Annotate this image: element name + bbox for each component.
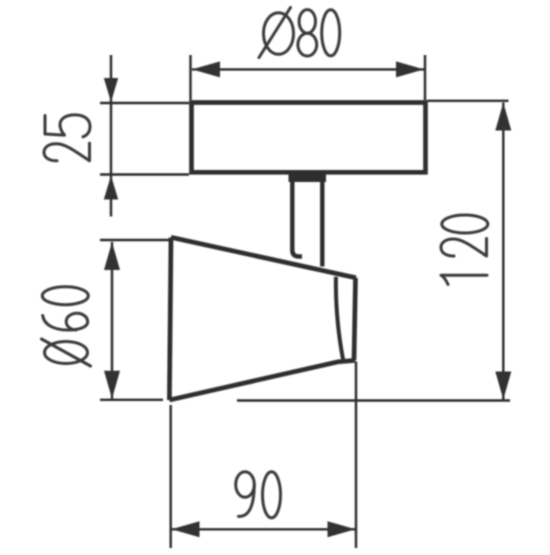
lamp cone rim inner line — [336, 277, 343, 360]
label 25 glyph 2 — [44, 143, 90, 161]
dim Ø80 dimension line — [192, 68, 424, 70]
dim 25 bottom arrowhead — [104, 176, 118, 200]
dim 90 left extension line — [169, 405, 171, 548]
dim 90 left arrowhead — [172, 521, 200, 537]
lamp neck collar — [289, 172, 327, 182]
label 120 glyph 0 — [442, 215, 488, 233]
dim 120 top arrowhead — [495, 103, 511, 131]
label 90 glyph 0 — [263, 472, 281, 518]
dim 120 dimension line — [502, 103, 504, 400]
dim 25 bottom extension line — [100, 173, 189, 175]
label Ø80 glyph 0 — [322, 10, 340, 56]
lamp cone rim outer line — [354, 278, 356, 361]
dim Ø80 right extension line — [424, 55, 426, 100]
label Ø80 glyph Ø — [259, 8, 294, 58]
dim 120 bottom extension line — [237, 399, 510, 401]
dim Ø60 top extension line — [100, 239, 170, 241]
dim 25 top extension line — [100, 102, 189, 104]
lamp mounting plate rectangle — [192, 103, 426, 173]
lamp cone left edge — [169, 238, 171, 401]
dim 90 dimension line — [172, 528, 356, 530]
label 90 glyph 9 — [236, 472, 255, 517]
label 120 glyph 2 — [441, 239, 487, 257]
dim 90 right extension line — [355, 362, 357, 549]
dim Ø60 bottom extension line — [100, 399, 163, 401]
lamp neck right wall — [320, 180, 324, 267]
dim Ø60 dimension line — [111, 242, 113, 399]
dim 25 dimension line — [110, 55, 112, 217]
lamp cone top edge — [171, 237, 356, 277]
dim 120 top extension line — [427, 100, 509, 102]
dim Ø60 top arrowhead — [104, 242, 120, 270]
dim 90 right arrowhead — [328, 521, 356, 537]
dim Ø80 right arrowhead — [396, 61, 424, 77]
dim Ø80 left arrowhead — [192, 61, 220, 77]
lamp neck left wall — [292, 180, 302, 257]
lamp cone bottom edge — [169, 360, 355, 400]
dim Ø80 left extension line — [189, 55, 191, 100]
dim 25 top arrowhead — [104, 78, 118, 102]
label 25 glyph 5 — [45, 115, 90, 137]
label Ø60 glyph 6 — [43, 313, 88, 330]
dim 120 bottom arrowhead — [495, 372, 511, 400]
dim Ø60 bottom arrowhead — [104, 371, 120, 399]
label Ø60 glyph 0 — [42, 287, 88, 305]
label 120 glyph 1 — [441, 275, 487, 284]
label Ø60 glyph Ø — [42, 339, 91, 366]
label Ø80 glyph 8 — [298, 10, 317, 56]
